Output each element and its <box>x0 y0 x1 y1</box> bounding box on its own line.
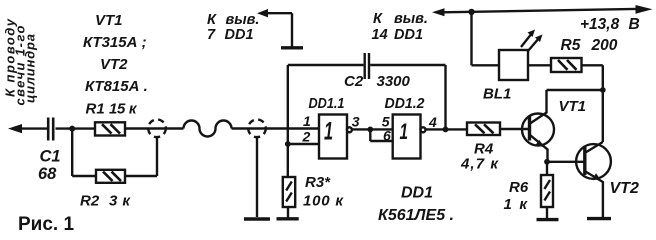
wire pin 6 stub <box>370 129 392 141</box>
svg-text:R5: R5 <box>561 37 581 54</box>
ground shield <box>244 137 270 219</box>
gate DD1.1 <box>302 95 360 159</box>
capacitor C2 <box>344 53 411 90</box>
transistor VT2 <box>576 142 639 217</box>
wire <box>232 127 320 129</box>
svg-text:3: 3 <box>352 114 360 130</box>
svg-text:Рис. 1: Рис. 1 <box>18 214 74 233</box>
wire branch to R2 <box>72 130 96 176</box>
svg-text:BL1: BL1 <box>483 86 511 103</box>
svg-text:R3*: R3* <box>305 174 331 191</box>
resistor R2 <box>80 170 131 210</box>
resistor R4 <box>460 123 500 173</box>
label DD1 type <box>378 185 454 225</box>
resistor R6 <box>504 162 554 213</box>
resistor R3 <box>283 174 345 210</box>
svg-text:цилиндра: цилиндра <box>23 34 38 103</box>
ground R6 <box>537 207 559 220</box>
svg-text:DD1: DD1 <box>225 27 254 43</box>
capacitor C1 <box>38 118 61 184</box>
svg-text:68: 68 <box>38 165 57 183</box>
node junction emitter <box>544 159 550 165</box>
label transistor types <box>83 12 148 95</box>
svg-text:R1: R1 <box>86 101 105 118</box>
svg-text:VT2: VT2 <box>100 56 128 73</box>
wire R2 to shield <box>125 137 157 177</box>
node junction pin2 <box>285 141 291 147</box>
node junction <box>600 87 606 93</box>
svg-text:DD1.2: DD1.2 <box>385 95 426 112</box>
svg-text:VT2: VT2 <box>610 180 639 197</box>
svg-text:КТ315А ;: КТ315А ; <box>83 34 147 51</box>
wire pin 2 stub <box>288 143 319 145</box>
ground to pin 7 of DD1 <box>207 9 303 48</box>
gate DD1.2 <box>382 95 437 159</box>
svg-text:К561ЛЕ5 .: К561ЛЕ5 . <box>378 207 454 224</box>
wire R5 to collectors <box>582 65 603 142</box>
wire collector rail <box>547 89 603 91</box>
svg-text:7: 7 <box>207 27 216 43</box>
wire BL1 to R5 <box>528 64 551 66</box>
node junction rail <box>468 9 474 15</box>
wire DD1.1 out to DD1.2 <box>352 128 393 130</box>
ground R3 <box>277 207 299 219</box>
node junction <box>443 126 449 132</box>
ground VT2 <box>587 217 611 220</box>
wire rail to BL1 <box>472 12 500 65</box>
wire feedback vertical left <box>287 65 289 177</box>
node junction <box>367 126 373 132</box>
resistor R1 <box>86 101 138 136</box>
wire <box>370 65 445 130</box>
svg-text:1: 1 <box>303 113 311 129</box>
label input annotation <box>3 18 38 105</box>
wire coaxial cable squiggle <box>184 121 232 137</box>
svg-text:1: 1 <box>400 119 409 144</box>
svg-text:1: 1 <box>324 118 333 146</box>
svg-text:4,7 к: 4,7 к <box>460 156 499 173</box>
wire feedback top <box>288 64 364 66</box>
svg-text:В: В <box>629 16 640 33</box>
svg-text:2: 2 <box>302 129 311 145</box>
svg-text:1 к: 1 к <box>504 196 529 213</box>
svg-text:К: К <box>207 12 217 28</box>
svg-text:DD1.1: DD1.1 <box>309 95 345 112</box>
wire <box>500 128 528 130</box>
wire <box>56 127 96 129</box>
svg-text:14: 14 <box>372 27 388 43</box>
svg-text:DD1: DD1 <box>401 185 433 202</box>
svg-text:3 к: 3 к <box>109 193 131 210</box>
svg-text:200: 200 <box>591 37 618 54</box>
wire <box>125 127 184 129</box>
wire <box>426 128 468 130</box>
svg-text:+13,8: +13,8 <box>580 16 620 33</box>
svg-text:100 к: 100 к <box>303 193 344 210</box>
svg-text:DD1: DD1 <box>394 27 423 43</box>
wire emitter node to VT2 base <box>547 161 585 163</box>
svg-text:6: 6 <box>383 128 391 144</box>
svg-text:3300: 3300 <box>377 73 411 90</box>
node shield connector left <box>148 120 166 138</box>
wire +13.8V power rail <box>372 5 653 43</box>
svg-text:4: 4 <box>428 114 437 130</box>
input arrow to spark plug wire <box>8 124 47 133</box>
svg-text:VT1: VT1 <box>95 12 123 29</box>
svg-text:R6: R6 <box>509 179 529 196</box>
resistor R5 <box>551 37 618 72</box>
svg-text:C1: C1 <box>40 148 61 166</box>
svg-text:К: К <box>373 11 383 27</box>
svg-text:КТ815А .: КТ815А . <box>85 78 148 95</box>
svg-text:C2: C2 <box>344 73 364 90</box>
svg-text:выв.: выв. <box>226 12 260 28</box>
node A junction <box>69 126 75 132</box>
svg-text:R2: R2 <box>80 193 100 210</box>
lamp BL1 <box>483 30 543 103</box>
transistor VT1 <box>522 90 586 162</box>
svg-text:VT1: VT1 <box>559 98 587 115</box>
node shield connector right <box>248 120 266 138</box>
svg-text:15 к: 15 к <box>109 101 138 118</box>
svg-text:выв.: выв. <box>394 11 428 27</box>
